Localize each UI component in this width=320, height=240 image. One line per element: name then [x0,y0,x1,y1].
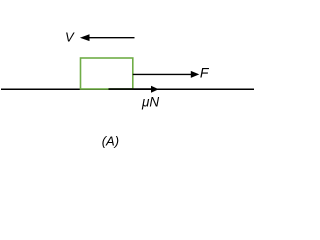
svg-text:μN: μN [141,95,159,110]
svg-text:V: V [65,30,75,45]
svg-text:(A): (A) [102,134,119,149]
svg-text:F: F [200,64,210,80]
